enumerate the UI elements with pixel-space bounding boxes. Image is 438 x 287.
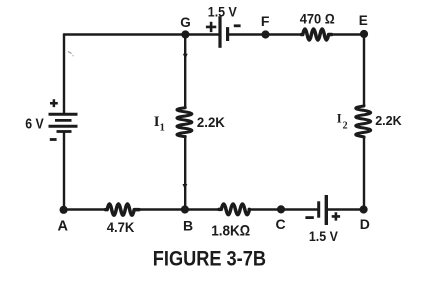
svg-text:B: B [183, 217, 193, 233]
wire middle rail upper [184, 35, 186, 108]
smudge artifact top-left [68, 52, 74, 56]
node D [360, 205, 368, 213]
battery B1 1.5V top short plate [226, 27, 229, 41]
battery B1 1.5V top long plate [218, 16, 221, 48]
svg-text:F: F [261, 13, 270, 29]
resistor 2.2K middle (I1 branch) [177, 108, 192, 137]
wire 470 ohm to node E [332, 33, 365, 35]
svg-text:6 V: 6 V [25, 116, 44, 133]
svg-text:G: G [180, 15, 191, 30]
svg-text:470 Ω: 470 Ω [300, 11, 335, 27]
battery B2 6V plate long 2 [49, 125, 78, 128]
wire top battery to F to resistor [229, 33, 301, 35]
plus sign top battery [206, 22, 216, 32]
wire 1.8K to C to battery [249, 208, 317, 210]
wire top-left segment [64, 33, 218, 35]
node C [277, 205, 285, 213]
wire middle rail lower [184, 137, 186, 210]
resistor 2.2K right (I2 branch) [356, 106, 371, 138]
current arrow on I1 branch lower [183, 184, 188, 189]
svg-text:A: A [58, 218, 69, 234]
battery B3 1.5V bottom long plate [325, 195, 328, 225]
resistor 1.8K [219, 204, 249, 215]
wire left rail lower [63, 133, 65, 210]
svg-text:D: D [360, 216, 370, 232]
current arrow on I1 branch upper [183, 54, 188, 59]
resistor 470 ohm [302, 29, 332, 40]
svg-text:1: 1 [160, 123, 165, 134]
plus sign bottom battery [332, 212, 340, 220]
minus sign top battery [234, 24, 241, 27]
plus sign 6V battery [50, 99, 58, 107]
svg-text:E: E [359, 13, 368, 28]
svg-text:2.2K: 2.2K [375, 113, 402, 128]
minus sign 6V battery [50, 138, 57, 141]
node A [60, 206, 68, 214]
wire right rail lower [363, 138, 365, 210]
svg-text:C: C [276, 216, 286, 232]
wire 4.7K to B to 1.8K [139, 208, 219, 210]
svg-text:1.5 V: 1.5 V [309, 228, 339, 244]
wire bottom battery to D [328, 208, 364, 210]
svg-text:FIGURE 3-7B: FIGURE 3-7B [153, 247, 266, 271]
svg-text:2.2K: 2.2K [197, 115, 225, 130]
svg-text:2: 2 [343, 121, 348, 132]
wire left rail upper [63, 35, 65, 113]
svg-text:1.8KΩ: 1.8KΩ [211, 223, 250, 240]
battery B2 6V plate long 1 [49, 113, 78, 116]
battery B3 1.5V bottom short plate [317, 201, 320, 217]
svg-text:1.5 V: 1.5 V [208, 4, 238, 20]
wire bottom A to 4.7K [64, 208, 106, 210]
minus sign bottom battery [305, 216, 313, 219]
battery B2 6V plate short 1 [55, 119, 72, 122]
resistor 4.7K [106, 204, 140, 215]
node B [181, 205, 189, 213]
node G [181, 30, 189, 38]
battery B2 6V plate short 2 [57, 130, 72, 133]
wire right rail upper [363, 35, 365, 106]
node F [261, 30, 269, 38]
svg-text:4.7K: 4.7K [107, 220, 135, 235]
svg-text:I: I [337, 111, 342, 125]
node E [360, 30, 368, 38]
